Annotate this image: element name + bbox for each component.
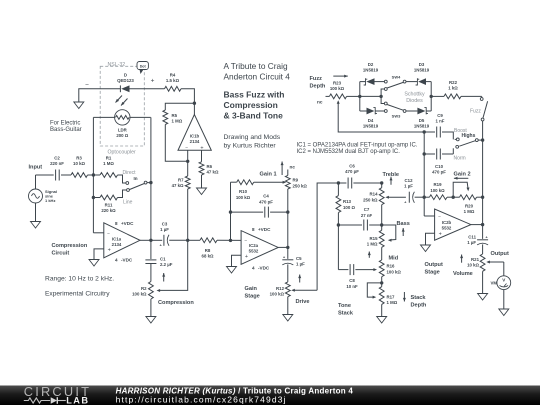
CircuitLab logo glyph (24, 398, 50, 403)
svg-text:470 pF: 470 pF (345, 169, 359, 174)
svg-text:1.5 kΩ: 1.5 kΩ (166, 78, 180, 83)
voltmeter VM (497, 276, 511, 290)
potentiometer R16 100k (379, 260, 384, 277)
resistor R1 1M (93, 174, 100, 176)
node boost junction (481, 138, 484, 141)
svg-text:1 µF: 1 µF (160, 227, 169, 232)
resistor R19 100k (424, 196, 429, 198)
svg-text:-VDC: -VDC (121, 258, 133, 263)
svg-text:Bass Fuzz with: Bass Fuzz with (224, 90, 285, 100)
wire C5 to R12 (287, 264, 289, 282)
svg-text:2134: 2134 (112, 242, 122, 247)
capacitor C12 1uF (408, 192, 410, 203)
drive rail up to tone stack (317, 183, 338, 290)
wire fuzz switch down rail (482, 121, 484, 225)
wire R11 to Line contact (118, 190, 127, 198)
R2 direction arrow (163, 273, 165, 282)
svg-text:R10: R10 (239, 189, 248, 194)
svg-text:Gain: Gain (245, 286, 258, 292)
svg-text:R9: R9 (293, 178, 299, 183)
svg-text:−: − (438, 215, 441, 220)
svg-text:R20: R20 (465, 204, 474, 209)
node R19 R20 junction (447, 196, 453, 198)
R23 direction arrow (333, 75, 348, 77)
svg-text:A Tribute to Craig: A Tribute to Craig (224, 61, 288, 71)
svg-text:Drawing and Mods: Drawing and Mods (224, 134, 281, 141)
wire LDR left rail down (92, 117, 94, 232)
svg-text:27 nF: 27 nF (361, 213, 373, 218)
svg-text:1 MΩ: 1 MΩ (367, 242, 378, 247)
wire IC2b plus to ground (426, 233, 435, 245)
svg-text:68 kΩ: 68 kΩ (202, 254, 214, 259)
gain2 direction arrow (454, 177, 468, 179)
svg-text:C10: C10 (435, 164, 444, 169)
svg-text:D5: D5 (419, 118, 425, 123)
wire R2 to ground (150, 299, 152, 317)
svg-text:Schottky: Schottky (404, 92, 425, 98)
svg-text:C12: C12 (405, 178, 414, 183)
wire R4 to IC1b output node (181, 89, 194, 103)
svg-text:−: − (85, 82, 89, 89)
potentiometer R15 1M (379, 230, 384, 247)
svg-text:C6: C6 (349, 164, 355, 169)
svg-text:−: − (244, 240, 247, 245)
node C12 R19 junction (423, 196, 426, 199)
svg-text:+: + (245, 254, 248, 260)
svg-text:100 kΩ: 100 kΩ (270, 292, 285, 297)
wire R13 to C7 row (337, 213, 339, 270)
capacitor C4 470pF (231, 211, 264, 213)
LDR 200 ohm photoresistor (115, 110, 130, 125)
ground below LED wire (74, 102, 84, 109)
svg-text:D3: D3 (419, 62, 425, 67)
svg-text:Stack: Stack (338, 311, 354, 317)
node IC2b output junction (481, 223, 484, 226)
node In rail junction (149, 181, 152, 184)
diode D5 1N5819 (403, 110, 406, 113)
svg-text:nc: nc (317, 100, 323, 105)
svg-text:1 MΩ: 1 MΩ (464, 209, 475, 214)
svg-text:Diodes: Diodes (406, 98, 423, 104)
capacitor C7 27nF (338, 224, 362, 226)
diode D3 1N5819 (403, 80, 406, 83)
svg-text:1N5819: 1N5819 (363, 68, 379, 73)
svg-text:250 kΩ: 250 kΩ (363, 198, 378, 203)
node switch common (379, 95, 382, 98)
wire C12 to R19 node (415, 196, 425, 198)
diode network left rail (359, 82, 361, 111)
capacitor C11 1uF (482, 225, 484, 239)
svg-text:QED123: QED123 (117, 78, 134, 83)
svg-text:1N5819: 1N5819 (363, 124, 379, 129)
wire LED anode to R4 (130, 88, 165, 90)
capacitor C9 1nF (436, 127, 438, 138)
node C4 R9 junction (286, 210, 289, 213)
node rail C4 junction (229, 210, 232, 213)
wire R9 to C4 row (287, 189, 289, 212)
svg-text:1 kHz: 1 kHz (45, 198, 55, 203)
wire center to switch node (360, 95, 381, 97)
diode network right rail (430, 82, 432, 111)
svg-text:D4: D4 (368, 118, 374, 123)
svg-text:47 kΩ: 47 kΩ (207, 170, 219, 175)
svg-text:http://circuitlab.com/cx26qrk7: http://circuitlab.com/cx26qrk749d3j (116, 395, 287, 405)
potentiometer R21 10k (480, 254, 485, 271)
svg-text:+VDC: +VDC (121, 221, 134, 226)
resistor R8 68k (188, 239, 200, 241)
svg-text:Circuit: Circuit (52, 251, 70, 257)
svg-text:4: 4 (115, 258, 118, 263)
wire R21 to ground (482, 271, 484, 293)
R2 wiper wire (160, 240, 188, 290)
svg-text:Fuzz: Fuzz (470, 109, 481, 115)
svg-text:1 µF: 1 µF (467, 240, 476, 245)
R10 wire to R9 wiper (254, 181, 283, 183)
node R3 R1 junction (92, 173, 95, 176)
svg-text:8: 8 (115, 221, 118, 226)
node treble junction (380, 181, 383, 184)
svg-text:Compression: Compression (224, 100, 278, 110)
node tone stack input (337, 181, 340, 184)
svg-text:IC1a: IC1a (112, 237, 122, 242)
node right rail (430, 95, 433, 98)
svg-text:2134: 2134 (190, 139, 200, 144)
switch SW1 contacts (126, 182, 129, 185)
LED light arrows (116, 96, 123, 103)
ground below R12 (283, 315, 293, 322)
svg-text:Stage: Stage (245, 294, 260, 300)
svg-text:R16: R16 (387, 264, 396, 269)
ground below R2 (146, 317, 156, 324)
svg-text:Output: Output (425, 262, 443, 268)
ground below R6 (197, 188, 207, 195)
wire LDR right rail down (150, 117, 152, 240)
diode D2 1N5819 (360, 81, 366, 83)
capacitor C6 470pF (338, 182, 346, 184)
ground below source (31, 222, 41, 229)
switch SW4 lever (387, 82, 403, 88)
capacitor C2 220nF (55, 170, 57, 181)
svg-text:100 kΩ: 100 kΩ (132, 292, 147, 297)
svg-text:R23: R23 (333, 81, 342, 86)
wire R12 to ground (287, 297, 289, 315)
R15 wiper loop (382, 225, 396, 240)
potentiometer R20 1M (453, 196, 459, 198)
bass direction arrow (402, 228, 404, 236)
treble direction arrow (390, 177, 392, 185)
op-amp IC1a 2134 (104, 223, 140, 258)
wire boost common to rail (478, 139, 482, 141)
svg-text:C1: C1 (160, 257, 166, 262)
op-amp IC2b 5532 (435, 209, 471, 240)
svg-text:Depth: Depth (411, 303, 427, 309)
svg-text:100 Ω: 100 Ω (343, 205, 355, 210)
resistor R13 100 (337, 183, 339, 196)
diode D4 1N5819 (360, 110, 367, 112)
svg-text:In: In (134, 176, 138, 181)
mid direction arrow (368, 252, 370, 258)
potentiometer R17 1M (379, 287, 384, 305)
svg-text:C4: C4 (263, 194, 269, 199)
wire IC1a minus input (93, 232, 103, 234)
potentiometer R9 250k (287, 170, 289, 176)
LED D QED123 (121, 85, 129, 92)
wire R8 to IC2a minus rail (217, 239, 241, 241)
svg-text:Compression: Compression (158, 300, 194, 306)
wire to voltmeter (503, 262, 505, 276)
svg-text:Gain 2: Gain 2 (454, 172, 471, 178)
svg-text:R22: R22 (449, 80, 458, 85)
R14 wiper wire to C12 (389, 196, 406, 198)
svg-text:1 µF: 1 µF (296, 262, 305, 267)
svg-text:1 kΩ: 1 kΩ (448, 86, 458, 91)
wire VM to ground (503, 290, 505, 309)
wire junction to R5 top (165, 103, 194, 110)
svg-text:C5: C5 (296, 256, 302, 261)
svg-text:R12: R12 (276, 286, 285, 291)
wire LDR right lead (130, 116, 151, 118)
svg-text:R17: R17 (387, 295, 396, 300)
node C3 R8 junction (186, 239, 189, 242)
svg-text:Stack: Stack (411, 295, 427, 301)
boost rail (423, 132, 425, 216)
svg-text:Line: Line (123, 200, 133, 206)
wire source to ground (35, 203, 37, 222)
wire R7 bottom to main row (187, 189, 189, 240)
svg-text:220 nF: 220 nF (50, 161, 64, 166)
wire C10 to norm contact (452, 148, 454, 154)
svg-text:Bass-Guitar: Bass-Guitar (50, 127, 82, 133)
svg-text:220 kΩ: 220 kΩ (101, 208, 116, 213)
svg-text:IC2b: IC2b (442, 220, 452, 225)
svg-text:SW4: SW4 (392, 74, 401, 79)
capacitor C1 2.2uF (150, 240, 152, 259)
svg-text:R15: R15 (370, 236, 379, 241)
svg-text:VM: VM (490, 281, 497, 286)
capacitor C5 1uF (287, 247, 289, 259)
potentiometer R12 100k (285, 282, 290, 297)
node C9 rail junction (423, 130, 426, 133)
svg-text:C11: C11 (468, 235, 476, 240)
svg-text:470 pF: 470 pF (259, 200, 273, 205)
wire C2 to R3 (61, 174, 71, 176)
svg-text:Drive: Drive (296, 299, 310, 305)
svg-text:200 Ω: 200 Ω (116, 133, 128, 138)
wire R16 to R17 (381, 277, 383, 287)
R17 bypass loop (367, 283, 381, 297)
svg-text:IC2a: IC2a (249, 243, 259, 248)
wire R1 to Direct contact (118, 175, 126, 183)
svg-text:R14: R14 (370, 192, 379, 197)
wire R3 to node (88, 174, 94, 176)
resistor R22 1k (431, 95, 444, 97)
node C7 junction (337, 223, 340, 226)
wire source to input row (35, 175, 37, 189)
svg-text:Stage: Stage (425, 270, 440, 276)
svg-text:R21: R21 (471, 257, 480, 262)
svg-text:R4: R4 (170, 73, 176, 78)
R12 direction arrow (299, 275, 301, 283)
node C10 junction (423, 152, 426, 155)
svg-text:R3: R3 (76, 156, 82, 161)
svg-text:1 µF: 1 µF (404, 184, 413, 189)
ground below VM (499, 309, 509, 316)
Dot callout bubble (137, 62, 148, 70)
svg-text:10 kΩ: 10 kΩ (467, 263, 479, 268)
node R17 junction (380, 281, 383, 284)
switch SW1 lever (129, 184, 144, 190)
svg-text:250 kΩ: 250 kΩ (293, 184, 308, 189)
svg-text:100 kΩ: 100 kΩ (236, 195, 251, 200)
svg-text:nc: nc (290, 165, 296, 170)
svg-text:Range: 10 Hz to 2 kHz.: Range: 10 Hz to 2 kHz. (45, 276, 114, 283)
svg-text:+: + (108, 248, 111, 254)
wire R17 to ground (381, 304, 383, 316)
wire IC1b plus pin to R6 (201, 150, 203, 162)
svg-text:Fuzz: Fuzz (310, 76, 323, 82)
svg-text:2.2 µF: 2.2 µF (160, 262, 173, 267)
svg-text:1 MΩ: 1 MΩ (103, 161, 114, 166)
ground at IC2a plus (227, 267, 237, 274)
svg-text:Anderton Circuit 4: Anderton Circuit 4 (224, 71, 291, 81)
node R15 top junction (380, 223, 383, 226)
svg-text:Bass: Bass (397, 221, 410, 227)
wire IC2b output (471, 224, 483, 226)
svg-text:R7: R7 (178, 178, 184, 183)
wire IC1a output (140, 239, 151, 241)
R20 wiper loop (453, 182, 468, 197)
svg-text:NSL-32: NSL-32 (108, 62, 126, 68)
resistor R6 47k (199, 162, 204, 175)
wire LED cathode to ground corner (79, 89, 121, 102)
ground at IC2b plus (421, 245, 431, 252)
node IC1b inverting junction (186, 160, 189, 163)
wire C9 to boost contact (442, 132, 453, 137)
capacitor C10 470pF (424, 153, 435, 155)
svg-text:+: + (439, 232, 442, 238)
svg-text:R19: R19 (434, 182, 443, 187)
switch SW3 lever (387, 105, 403, 111)
svg-text:LAB: LAB (66, 396, 89, 405)
R23 wiper wire down to C9 row (338, 103, 435, 132)
ground at IC1a plus (89, 260, 99, 267)
svg-text:-VDC: -VDC (258, 266, 270, 271)
potentiometer R14 250k (381, 183, 383, 188)
wire R22 to fuzz switch (461, 95, 482, 97)
wire R14 to R15 (381, 205, 383, 231)
svg-text:Gain 1: Gain 1 (260, 172, 277, 178)
ground below R21 (478, 294, 488, 301)
wire feedback rail (230, 182, 232, 240)
R9 direction arrow (281, 162, 283, 176)
svg-text:R5: R5 (172, 113, 178, 118)
resistor R5 1M (163, 110, 168, 125)
svg-text:10 kΩ: 10 kΩ (73, 161, 85, 166)
node IC1a output junction (149, 239, 152, 242)
svg-text:470 pF: 470 pF (432, 170, 446, 175)
svg-text:C9: C9 (437, 113, 443, 118)
svg-text:Optocoupler: Optocoupler (108, 150, 137, 156)
svg-text:For Electric: For Electric (50, 121, 80, 127)
wire inverting node to IC1b minus pin (187, 150, 189, 161)
svg-text:1 MΩ: 1 MΩ (387, 300, 398, 305)
svg-text:Mid: Mid (389, 256, 399, 262)
svg-text:Dot: Dot (140, 65, 147, 69)
svg-text:SW3: SW3 (392, 114, 401, 119)
wire R20 to output rail (477, 196, 483, 198)
svg-text:LDR: LDR (118, 128, 128, 133)
R12 wiper wire to drive rail (295, 289, 318, 291)
svg-text:Highs: Highs (462, 133, 476, 139)
wire input row (36, 174, 54, 176)
capacitor C8 10nF (338, 269, 348, 271)
svg-text:R6: R6 (207, 164, 213, 169)
R21 direction arrow (461, 255, 463, 263)
svg-text:−: − (107, 232, 110, 237)
potentiometer R2 100k (149, 282, 154, 300)
wire In common to rail (147, 182, 151, 184)
svg-text:8: 8 (252, 227, 255, 232)
wire IC2a output (278, 246, 288, 248)
node IC2a input junction (229, 239, 232, 242)
wire R23 to diode network (347, 95, 360, 97)
switch Fuzz (481, 96, 483, 97)
node IC2a output junction (286, 246, 289, 249)
switch boost lever (475, 139, 478, 142)
wire C3 to node (169, 239, 188, 241)
resistor R11 220k (93, 197, 100, 199)
svg-text:Input: Input (29, 165, 43, 171)
svg-text:10 nF: 10 nF (346, 284, 358, 289)
svg-text:R11: R11 (105, 203, 113, 208)
svg-text:Norm: Norm (454, 156, 466, 162)
node R11 junction (92, 196, 95, 199)
resistor R10 100k (231, 181, 237, 183)
svg-text:Depth: Depth (310, 84, 326, 90)
svg-text:R1: R1 (106, 156, 112, 161)
svg-text:1N5819: 1N5819 (414, 68, 430, 73)
svg-text:1N5819: 1N5819 (414, 124, 430, 129)
wire R15 to R16 (381, 247, 383, 260)
svg-text:+VDC: +VDC (258, 227, 271, 232)
ground below R17 (377, 317, 387, 324)
svg-text:D2: D2 (368, 62, 374, 67)
wire C1 to R2 (150, 264, 152, 282)
wire R6 to ground (201, 175, 203, 188)
svg-text:1 nF: 1 nF (436, 119, 445, 124)
optocoupler NSL-32 dashed box (100, 66, 144, 146)
wire C4 rail to output (287, 212, 289, 247)
svg-text:C8: C8 (349, 278, 355, 283)
svg-text:Output: Output (491, 251, 509, 257)
svg-text:Volume: Volume (453, 271, 473, 277)
wire IC2b minus leg (424, 215, 434, 217)
svg-text:Compression: Compression (52, 243, 88, 249)
potentiometer R23 100k (326, 95, 330, 97)
svg-text:100 kΩ: 100 kΩ (330, 86, 345, 91)
svg-text:+: + (151, 78, 155, 85)
svg-text:R8: R8 (205, 248, 211, 253)
svg-text:−: − (185, 146, 188, 151)
svg-text:4: 4 (252, 266, 255, 271)
svg-text:47 kΩ: 47 kΩ (172, 183, 184, 188)
svg-text:IC1b: IC1b (190, 134, 200, 139)
svg-text:C2: C2 (54, 156, 60, 161)
svg-text:C7: C7 (364, 207, 370, 212)
node R20 rail junction (481, 196, 484, 199)
node diode left rail (358, 95, 361, 98)
wire IC2a plus to ground (232, 255, 242, 266)
